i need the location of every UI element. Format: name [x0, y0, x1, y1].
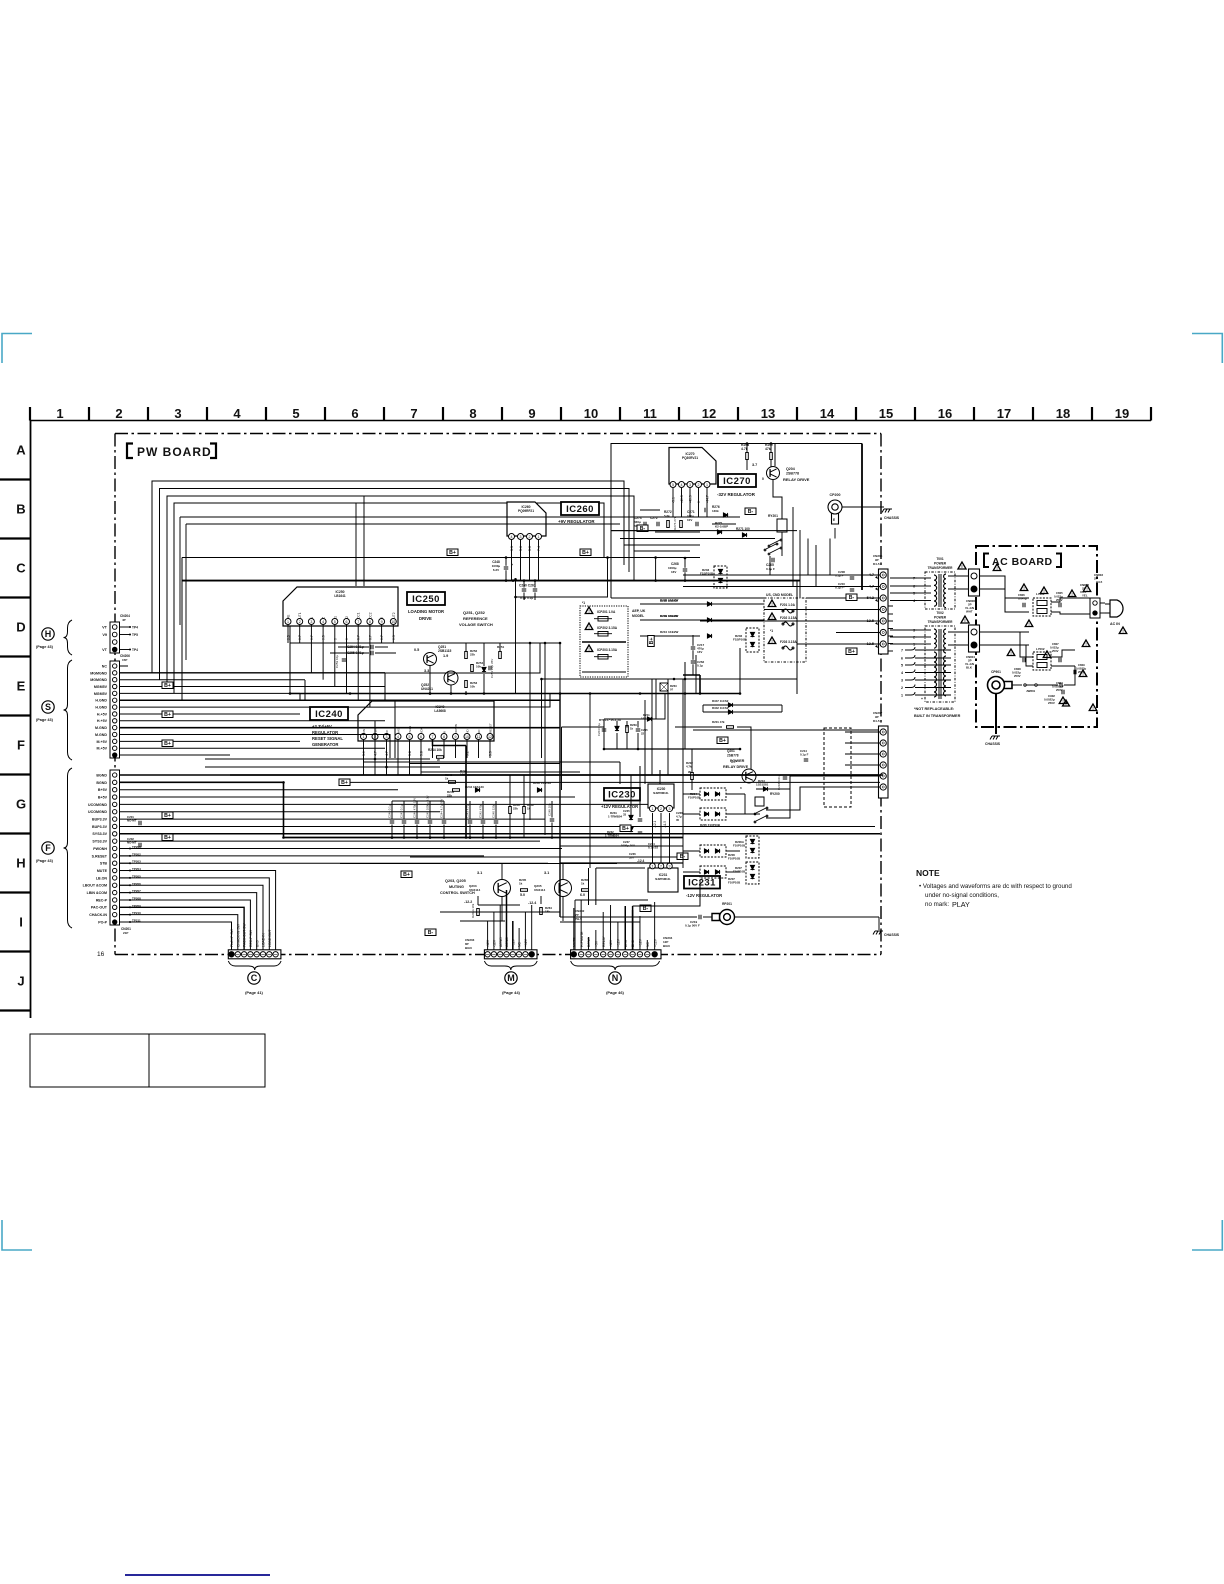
- svg-text:0.1μ F*: 0.1μ F*: [835, 586, 845, 590]
- wire: [505, 558, 507, 566]
- CN201 pin 16: [113, 883, 117, 887]
- wire: [305, 819, 307, 826]
- CN206 pin 5: [113, 691, 117, 695]
- svg-text:3: 3: [689, 483, 691, 487]
- wire: [905, 657, 911, 659]
- warning triangle: [1068, 590, 1076, 597]
- svg-text:F1BP10B: F1BP10B: [733, 638, 747, 642]
- wire: [683, 674, 700, 676]
- svg-text:11: 11: [643, 406, 657, 421]
- svg-text:IC240: IC240: [315, 709, 343, 720]
- connector CN204 body: [110, 622, 120, 653]
- wire: [560, 845, 683, 847]
- svg-text:(Page 41): (Page 41): [245, 990, 263, 995]
- resistor R273: [680, 521, 683, 528]
- wire H.GND: [120, 699, 561, 701]
- wire L7002 out B: [1051, 665, 1075, 667]
- svg-text:STB: STB: [100, 862, 108, 866]
- svg-text:15P: 15P: [122, 658, 127, 662]
- CN204 pin 2: [112, 632, 117, 637]
- jumper JW801: [1024, 684, 1026, 686]
- svg-text:1-TRMB04: 1-TRMB04: [605, 834, 619, 838]
- wire: [215, 578, 217, 700]
- CN206 pin 8: [113, 712, 117, 716]
- svg-text:3.1: 3.1: [544, 871, 549, 875]
- svg-text:RELAY DRIVE: RELAY DRIVE: [783, 477, 810, 482]
- grid ruler tick: [147, 407, 149, 421]
- wire: [616, 821, 618, 871]
- svg-text:PLAY-P SW: PLAY-P SW: [230, 928, 234, 947]
- svg-text:!: !: [1092, 706, 1093, 711]
- wire: [293, 804, 295, 811]
- svg-text:R244 1SS133: R244 1SS133: [465, 785, 484, 789]
- wire relay feeder: [799, 530, 801, 598]
- junction: [385, 766, 388, 769]
- svg-text:5: 5: [292, 406, 299, 421]
- wire loop to thin rail: [516, 558, 608, 598]
- wire IC250 pin: [322, 625, 324, 643]
- svg-text:AGND: AGND: [499, 937, 503, 947]
- wire: [630, 775, 632, 815]
- svg-text:H.GND: H.GND: [95, 699, 107, 703]
- label IC270: [718, 474, 756, 487]
- svg-text:47k: 47k: [765, 447, 771, 451]
- wire: [499, 643, 501, 651]
- svg-text:A: A: [16, 443, 26, 458]
- svg-text:7: 7: [357, 620, 359, 624]
- junction: [416, 836, 419, 839]
- wire: [683, 793, 700, 795]
- wire: [746, 460, 748, 470]
- crop mark bottom-left: [2, 1220, 32, 1250]
- svg-text:POWER: POWER: [934, 562, 947, 566]
- svg-text:I: I: [19, 915, 23, 930]
- wire hook: [888, 628, 893, 630]
- IC270 pins 5-1: [670, 482, 710, 488]
- wire: [770, 444, 772, 453]
- wire bus: [180, 516, 640, 518]
- arrow: [875, 576, 878, 579]
- CN201 pin 7: [113, 817, 117, 821]
- diode D271: [742, 533, 746, 537]
- wire: [683, 813, 700, 815]
- junction: [349, 692, 352, 695]
- resistor R252: [465, 652, 468, 659]
- svg-text:+: +: [511, 563, 513, 567]
- crop mark top-left: [2, 334, 32, 364]
- diode R206a: [704, 849, 708, 853]
- CN205 pin 6: [880, 629, 886, 635]
- warning triangle C902: [1063, 700, 1070, 706]
- wire to CN207: [845, 753, 880, 755]
- wire: [283, 838, 285, 906]
- wire: [667, 679, 669, 775]
- wire bus line 3: [167, 496, 634, 687]
- svg-text:CHACK-IN: CHACK-IN: [89, 913, 107, 917]
- wire: [905, 657, 950, 659]
- junction: [505, 579, 508, 582]
- CN206 pin 12: [113, 739, 117, 743]
- resistor R206: [477, 909, 480, 916]
- junction: [654, 579, 657, 582]
- svg-text:R206A 18k: R206A 18k: [471, 903, 475, 918]
- AC board title: [984, 554, 1061, 569]
- wire B+5V: [120, 789, 399, 791]
- svg-text:8: 8: [369, 620, 371, 624]
- wire: [477, 896, 479, 905]
- wire: [416, 801, 418, 820]
- resistor R253: [465, 681, 468, 688]
- net label B+: [401, 871, 412, 878]
- wire SYS3.3V: [120, 840, 541, 842]
- junction: [429, 836, 432, 839]
- svg-text:!: !: [771, 615, 772, 620]
- hook curve: [911, 655, 915, 658]
- wire S ext: [385, 643, 540, 673]
- op-amp IC250 package: [283, 587, 398, 626]
- svg-text:-11.5: -11.5: [663, 821, 667, 828]
- wire: [416, 825, 418, 838]
- wire to connector M: [493, 912, 495, 950]
- wire Q203 emitter: [501, 897, 503, 921]
- svg-text:TP5: TP5: [132, 633, 138, 637]
- wire: [540, 896, 542, 904]
- filter L7002: [1033, 652, 1051, 670]
- connector CN201 body: [110, 770, 120, 925]
- wire: [483, 643, 485, 666]
- CN207 pin 1: [880, 729, 886, 735]
- CN206 pin 1: [113, 664, 117, 668]
- net label B+: [162, 740, 173, 747]
- junction: [374, 758, 377, 761]
- svg-text:D4-5: D4-5: [873, 719, 880, 723]
- net label B-: [677, 853, 688, 860]
- connector CN207 body: [879, 726, 889, 798]
- wire thick vertical: [559, 694, 561, 918]
- svg-text:Q251, Q252: Q251, Q252: [463, 610, 486, 615]
- svg-text:16V: 16V: [671, 570, 676, 574]
- grid ruler tick: [678, 407, 680, 421]
- svg-text:R244 10k: R244 10k: [428, 748, 442, 752]
- svg-text:NC: NC: [518, 942, 522, 947]
- wire IC250 pin: [299, 625, 301, 643]
- svg-text:H-PMUTE: H-PMUTE: [580, 931, 584, 947]
- wire: [450, 685, 452, 694]
- grid ruler tick: [0, 537, 31, 539]
- svg-text:R347 11CS2: R347 11CS2: [712, 699, 729, 703]
- grid ruler horizontal line: [30, 420, 1151, 422]
- svg-text:RELAY DRIVE: RELAY DRIVE: [723, 765, 749, 769]
- wire IC240 pin: [432, 740, 434, 758]
- wire: [644, 700, 646, 784]
- diode pack R204: [700, 788, 726, 800]
- wire: [429, 825, 431, 838]
- svg-text:R246 1SS133: R246 1SS133: [533, 781, 551, 785]
- junction: [129, 892, 131, 894]
- junction: [654, 556, 657, 559]
- wire M.GND: [120, 727, 561, 729]
- junction: [684, 678, 687, 681]
- svg-text:1: 1: [538, 535, 540, 539]
- wire IC240 pin: [466, 740, 468, 758]
- wire: [652, 813, 654, 863]
- wire: [675, 726, 722, 728]
- svg-text:POWER: POWER: [934, 616, 947, 620]
- wire M.+5V: [120, 747, 386, 749]
- wire: [120, 877, 131, 879]
- svg-text:250V: 250V: [1048, 701, 1055, 705]
- capacitor C208: [850, 577, 855, 579]
- wire to AC IN: [1100, 602, 1105, 604]
- wire IC240 pin down: [409, 758, 411, 775]
- svg-text:18: 18: [1056, 406, 1070, 421]
- arrow: [875, 599, 878, 602]
- wire: [659, 770, 661, 775]
- arrow: [875, 588, 878, 591]
- wire LBIN &COM to connector C: [120, 893, 257, 950]
- connector ref F: [42, 842, 54, 854]
- wire: [551, 823, 553, 838]
- junction: [606, 556, 609, 559]
- svg-text:250V: 250V: [1056, 688, 1063, 692]
- wire IC270 pin drop: [706, 505, 708, 517]
- CN205 pin 7: [880, 641, 886, 647]
- connector CN804 body: [969, 625, 980, 652]
- svg-text:!: !: [1071, 592, 1072, 597]
- svg-text:CHASSIS: CHASSIS: [985, 742, 1001, 746]
- wire: [712, 523, 736, 525]
- wire: [669, 813, 671, 863]
- svg-text:0.7: 0.7: [380, 635, 384, 640]
- CN206 pin 11: [113, 732, 117, 736]
- wire: [628, 537, 630, 572]
- wire: [905, 672, 950, 674]
- svg-text:4: 4: [397, 735, 399, 739]
- svg-text:14: 14: [820, 406, 835, 421]
- wire MGM5V: [120, 686, 386, 688]
- grid ruler tick: [0, 655, 31, 657]
- svg-text:SYS3.3V: SYS3.3V: [92, 840, 107, 844]
- junction: [483, 692, 486, 695]
- wire IC250 pin: [392, 625, 394, 643]
- chassis ground AC: [990, 736, 1000, 740]
- svg-text:E: E: [833, 518, 835, 522]
- CN201 pin 15: [113, 876, 117, 880]
- wire: [501, 855, 503, 864]
- wire: [559, 643, 561, 694]
- capacitor C205: [772, 558, 774, 563]
- wire to L7002 B: [1020, 645, 1033, 666]
- wire IC250 pin to S row: [334, 643, 336, 687]
- CN201 pin 13: [113, 861, 117, 865]
- CN207 pin 3: [880, 751, 886, 757]
- svg-text:!: !: [1062, 699, 1063, 704]
- wire: [693, 729, 880, 731]
- transformer T002 box: [925, 626, 955, 702]
- revision table: [30, 1034, 265, 1087]
- svg-text:• Voltages and waveforms are d: • Voltages and waveforms are dc with res…: [919, 883, 1072, 890]
- CN205 pin 2: [880, 583, 886, 589]
- warning triangle F203: [768, 637, 776, 644]
- svg-text:1.9: 1.9: [443, 654, 448, 658]
- svg-text:10: 10: [391, 620, 395, 624]
- svg-text:C247 0.1μ: C247 0.1μ: [400, 804, 404, 818]
- svg-text:*1: *1: [770, 629, 773, 633]
- wire stair: [394, 700, 396, 758]
- wire: [575, 899, 648, 901]
- svg-text:-32V REGULATOR: -32V REGULATOR: [717, 492, 756, 497]
- resistor R272: [667, 521, 670, 528]
- wire to connector N: [580, 900, 582, 950]
- svg-text:5: 5: [334, 620, 336, 624]
- CN201 pin 10: [113, 839, 117, 843]
- junction: [129, 914, 131, 916]
- wire: [203, 574, 205, 687]
- junction: [559, 692, 562, 695]
- wire vertical rail: [515, 579, 517, 693]
- svg-text:1k: 1k: [519, 882, 523, 886]
- wire: [495, 801, 497, 820]
- wire IC270 pin: [698, 488, 700, 505]
- wire BGND branch down: [283, 782, 285, 837]
- svg-text:TRANSFORMER: TRANSFORMER: [928, 620, 953, 624]
- wire: [120, 855, 131, 857]
- svg-text:PAC-OUT: PAC-OUT: [91, 906, 108, 910]
- svg-text:F201 1.0A: F201 1.0A: [780, 603, 796, 607]
- IC231 pins: [650, 863, 673, 869]
- chassis ground: [882, 509, 892, 513]
- svg-text:C260 C261: C260 C261: [519, 584, 536, 588]
- wire: [726, 871, 740, 873]
- wire row 767: [205, 766, 440, 768]
- CN206 pin 10: [113, 725, 117, 729]
- resistor R201: [727, 726, 734, 729]
- svg-text:4: 4: [901, 671, 903, 675]
- wire: [691, 749, 693, 772]
- wire: [1064, 666, 1075, 685]
- wire relay feeder: [792, 507, 794, 587]
- wire: [179, 517, 181, 625]
- svg-text:D: D: [16, 620, 25, 635]
- IC260 pins 4-1: [509, 534, 542, 540]
- svg-text:F10P10B: F10P10B: [733, 844, 745, 848]
- connector CN802 body: [1090, 598, 1100, 618]
- svg-text:R209 1KE2W: R209 1KE2W: [660, 614, 678, 618]
- svg-text:35V: 35V: [629, 856, 634, 860]
- wire: [616, 721, 618, 728]
- wire T001 pin: [917, 600, 931, 602]
- resistor R245: [453, 789, 460, 792]
- wire to CN207: [845, 786, 880, 788]
- CN206 pin 14: [113, 753, 117, 757]
- grid ruler tick: [796, 407, 798, 421]
- svg-text:AC IN: AC IN: [1110, 622, 1120, 626]
- svg-text:B-: B-: [640, 526, 646, 532]
- wire to L7002: [1020, 632, 1033, 657]
- wire DH3 to relay region: [633, 880, 700, 906]
- diode D241: [537, 788, 541, 792]
- wire to connector N: [573, 908, 575, 950]
- svg-text:1k: 1k: [581, 882, 585, 886]
- junction: [559, 642, 562, 645]
- svg-text:C242 470μ: C242 470μ: [479, 803, 483, 818]
- wire IC270 pin drop: [672, 505, 674, 517]
- wire T001 pin: [917, 592, 931, 594]
- wire to CN207: [845, 742, 880, 744]
- wire: [770, 460, 772, 467]
- wire: [334, 643, 336, 662]
- wire: [637, 733, 639, 749]
- wire: [656, 694, 665, 719]
- diode R205bb: [715, 812, 719, 816]
- capacitor C236: [638, 832, 643, 834]
- wire: [403, 825, 405, 838]
- svg-text:0.5: 0.5: [392, 635, 396, 640]
- wire MGMGND: [120, 672, 386, 674]
- svg-text:-12.1: -12.1: [653, 821, 657, 828]
- grid ruler vertical line: [30, 421, 32, 1019]
- resistor R202r: [691, 773, 694, 780]
- wire: [1029, 632, 1033, 657]
- svg-text:6: 6: [420, 735, 422, 739]
- wire CP200 to chassis: [842, 506, 884, 508]
- svg-text:NOTE: NOTE: [916, 868, 940, 878]
- svg-text:R251: R251: [497, 645, 505, 649]
- capacitor C248: [390, 821, 395, 823]
- junction: [129, 634, 131, 636]
- transistor Q251: [424, 653, 437, 666]
- wire: [623, 530, 625, 565]
- transistor Q201: [742, 769, 756, 783]
- svg-text:F10P10B: F10P10B: [688, 796, 700, 800]
- net label B+ vertical: [648, 636, 655, 647]
- svg-text:B+: B+: [848, 649, 855, 655]
- arrow: [875, 645, 878, 648]
- grid ruler tick: [0, 1009, 31, 1011]
- svg-text:0.7: 0.7: [310, 635, 314, 640]
- wire: [120, 649, 131, 651]
- wire IC240 pin: [443, 740, 445, 758]
- svg-text:5.5: 5.5: [489, 751, 493, 756]
- svg-text:R208 1KE2W: R208 1KE2W: [660, 599, 678, 603]
- capacitor C274: [705, 508, 707, 513]
- CN806 pin 1: [971, 573, 977, 579]
- capacitor C264: [602, 729, 607, 731]
- svg-text:1: 1: [652, 807, 654, 811]
- CN207 pin 4: [880, 762, 886, 768]
- wire T002 secondary: [915, 679, 951, 681]
- wire IC240 pin: [397, 740, 399, 758]
- svg-text:130k: 130k: [712, 509, 719, 513]
- wire T002 to CN804: [948, 644, 969, 646]
- junction: [739, 748, 742, 751]
- PW board border top: [115, 433, 881, 435]
- wire rail link: [655, 558, 657, 581]
- CN205 pin 1: [880, 572, 886, 578]
- junction: [540, 678, 543, 681]
- svg-text:2: 2: [115, 406, 122, 421]
- wire: [752, 858, 754, 862]
- wire: [443, 801, 445, 820]
- wire relay to CN207: [766, 787, 845, 810]
- capacitor C268: [683, 569, 688, 571]
- grid ruler tick: [560, 407, 562, 421]
- wire stair: [304, 680, 306, 701]
- svg-text:0: 0: [345, 638, 349, 640]
- svg-text:B+: B+: [164, 835, 171, 841]
- wire CN205 to T002: [890, 643, 917, 645]
- junction: [282, 836, 285, 839]
